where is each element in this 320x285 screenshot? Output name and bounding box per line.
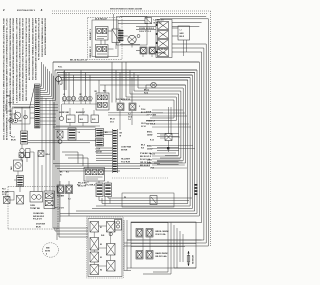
cabinet border dotted top inner bbox=[52, 13, 207, 15]
svg-text:CONV FAN: CONV FAN bbox=[121, 146, 132, 149]
oven selector block SW8 bbox=[84, 168, 105, 182]
board relay KA bbox=[90, 222, 99, 233]
broil element HE1 bbox=[136, 229, 153, 238]
oven box feed verticals bbox=[124, 220, 131, 271]
receptacle block R1 bbox=[96, 93, 109, 110]
svg-text:BR-4: BR-4 bbox=[46, 153, 50, 156]
interlock xbox bbox=[4, 197, 11, 204]
extra center text sprinkles bbox=[58, 59, 107, 93]
svg-text:HIGH VOLTAGE PRESENT AT TERMIN: HIGH VOLTAGE PRESENT AT TERMINALS. DISCH… bbox=[31, 17, 34, 80]
door switch label bottom-left bbox=[36, 224, 45, 229]
svg-text:BR-12: BR-12 bbox=[110, 119, 115, 121]
svg-text:CONTROLS. WIRING ERRORS CAN CA: CONTROLS. WIRING ERRORS CAN CAUSE IMPROP… bbox=[12, 18, 15, 105]
terminal block TB1 bbox=[145, 18, 152, 24]
junction blob bbox=[167, 147, 169, 149]
svg-text:SCHEMATIC SHOWN WITH POWER OFF: SCHEMATIC SHOWN WITH POWER OFF AND ALL C… bbox=[19, 18, 22, 101]
svg-text:SW BK-W-R: SW BK-W-R bbox=[33, 216, 45, 218]
svg-text:SU1: SU1 bbox=[68, 119, 71, 121]
relay interconnect wires bbox=[101, 31, 114, 49]
svg-text:FOR SERVICE INFORMATION CALL 1: FOR SERVICE INFORMATION CALL 1-800 SE bbox=[41, 17, 44, 57]
ladder component mid bbox=[68, 128, 80, 140]
bottom region box outline bbox=[122, 193, 174, 207]
control board dashed outline bbox=[87, 217, 124, 278]
fuse indicator circle bbox=[56, 74, 62, 85]
svg-text:BK-R: BK-R bbox=[180, 36, 185, 38]
oven sensor S1 bbox=[187, 251, 190, 266]
indicator lamps trio B bbox=[79, 96, 92, 100]
svg-text:HI-LIMIT: HI-LIMIT bbox=[121, 159, 131, 161]
svg-text:SU3: SU3 bbox=[92, 119, 95, 121]
wire bus left corner drops bbox=[62, 71, 66, 90]
svg-text:BK-W: BK-W bbox=[11, 139, 16, 141]
selector switch SW7 bbox=[44, 191, 55, 209]
svg-text:SW BK-8: SW BK-8 bbox=[146, 123, 155, 125]
svg-text:LOCK: LOCK bbox=[96, 149, 102, 151]
board feed wires left bbox=[53, 80, 88, 237]
right-mid label cluster 3 bbox=[141, 145, 195, 150]
element wires to bundle bbox=[157, 134, 179, 165]
wire mid horizontal 1b bbox=[28, 142, 90, 144]
svg-text:SURF IND: SURF IND bbox=[59, 112, 70, 114]
element relay K4 bbox=[66, 185, 73, 194]
wire mid corner group bbox=[62, 152, 88, 169]
svg-text:BK-W: BK-W bbox=[36, 226, 41, 228]
svg-text:ALL COMPONENTS SHOWN DE-ENERGI: ALL COMPONENTS SHOWN DE-ENERGIZED. RESIS… bbox=[28, 18, 31, 80]
oven thermostat TH1 bbox=[30, 192, 43, 203]
svg-text:BK-8: BK-8 bbox=[141, 145, 145, 147]
fan motor FM1 bbox=[14, 160, 23, 171]
terminal strip pins bbox=[156, 24, 158, 53]
svg-text:LF: LF bbox=[63, 94, 65, 96]
ladder component bbox=[17, 176, 24, 187]
svg-text:OR-12: OR-12 bbox=[141, 123, 146, 125]
second row wires bbox=[56, 104, 100, 126]
note bubble dashed bbox=[43, 243, 59, 257]
board relay KF bbox=[107, 244, 116, 256]
svg-text:RELAY 1: RELAY 1 bbox=[89, 29, 92, 40]
fuse ladder F1 bbox=[112, 14, 123, 49]
transformer info box bbox=[178, 26, 190, 40]
hot surface indicator pair bbox=[9, 118, 22, 122]
connector P2 left wires bbox=[96, 132, 113, 161]
latch row lower labels bbox=[110, 119, 115, 124]
latch switch LS1 bbox=[117, 103, 124, 111]
svg-text:8101P554-60 REV 0: 8101P554-60 REV 0 bbox=[17, 9, 36, 12]
svg-text:K2: K2 bbox=[100, 244, 102, 246]
right-mid vertical wire pair bbox=[169, 107, 172, 152]
svg-text:8101P554-60 WIRING INFORMATION: 8101P554-60 WIRING INFORMATION FOR bbox=[44, 18, 47, 55]
right-mid dense cluster 4 bbox=[140, 152, 187, 168]
lamp trio labels bbox=[63, 91, 98, 96]
splice dots on bundle bbox=[194, 184, 197, 195]
right-mid label cluster 2 bbox=[141, 123, 191, 128]
wires TB1 bbox=[118, 21, 156, 30]
svg-text:NOTE: 1. DISCONNECT POWER BEFO: NOTE: 1. DISCONNECT POWER BEFORE SERVICI… bbox=[3, 18, 6, 140]
svg-text:OVEN LT: OVEN LT bbox=[146, 121, 156, 123]
svg-text:2500W: 2500W bbox=[147, 148, 153, 150]
clean lamp wires bbox=[22, 144, 34, 162]
oven light wires bbox=[146, 85, 186, 90]
board relay KE bbox=[107, 222, 116, 236]
wire bundle terminal stubs bbox=[120, 16, 206, 26]
svg-text:W-14: W-14 bbox=[144, 91, 148, 94]
connector P1 corner fan from bus bbox=[40, 62, 56, 101]
connector P1 strip body bbox=[35, 84, 41, 128]
board corner cluster bbox=[115, 220, 122, 231]
bottom nested corner wires bbox=[99, 197, 192, 207]
surface switch wires bbox=[120, 45, 152, 58]
latch label texts bbox=[128, 114, 132, 122]
ground symbol bbox=[8, 98, 12, 105]
svg-text:BU-W GY-2: BU-W GY-2 bbox=[140, 156, 151, 158]
svg-text:DOOR SW: DOOR SW bbox=[36, 224, 45, 226]
supply vertical L1 bbox=[52, 62, 54, 222]
svg-text:GY-6: GY-6 bbox=[128, 116, 132, 118]
svg-text:BAKE 2500W: BAKE 2500W bbox=[156, 252, 168, 255]
svg-text:TCO R-W: TCO R-W bbox=[121, 161, 130, 163]
board relay KB bbox=[90, 238, 99, 251]
svg-text:R-6: R-6 bbox=[66, 172, 69, 174]
connector P2 strip body bbox=[113, 129, 118, 173]
supply vertical R bbox=[56, 73, 58, 241]
lock motor block bbox=[96, 129, 109, 154]
console labels bottom bbox=[33, 212, 45, 221]
wire bottom-right lower turns bbox=[143, 268, 196, 274]
center labels right of latches bbox=[139, 90, 156, 126]
svg-text:K6 BR: K6 BR bbox=[57, 196, 65, 198]
door plunger switch bbox=[150, 196, 157, 205]
second row components bbox=[60, 115, 99, 123]
svg-text:P4 P6 P8 P12: P4 P6 P8 P12 bbox=[116, 98, 130, 101]
svg-text:SU2: SU2 bbox=[80, 119, 83, 121]
mid small xbox component bbox=[38, 151, 49, 157]
svg-text:P2-8: P2-8 bbox=[2, 189, 6, 191]
svg-text:R-W 13.3A: R-W 13.3A bbox=[156, 233, 167, 236]
svg-text:Y-4: Y-4 bbox=[128, 118, 131, 121]
svg-text:DOUBLE LINES DENOTE CHASSIS GR: DOUBLE LINES DENOTE CHASSIS GROUND CIRCU… bbox=[22, 17, 25, 101]
svg-text:6. CHECK FOR PROPER GROUND CON: 6. CHECK FOR PROPER GROUND CONTINUITY BE… bbox=[16, 18, 18, 103]
switch pair boxes bbox=[19, 153, 30, 158]
surface switch SW1 bbox=[140, 47, 156, 54]
buzzer BZ1 box bbox=[12, 108, 30, 124]
board relay KG bbox=[107, 261, 116, 272]
connector ladder P1-2 bbox=[21, 131, 28, 144]
wire bus line single bbox=[53, 61, 199, 63]
board relay KD bbox=[90, 265, 99, 275]
terminal box outline bbox=[156, 20, 172, 58]
svg-text:P1-2: P1-2 bbox=[11, 137, 15, 139]
selector block labels bbox=[60, 172, 95, 187]
indicator wires bbox=[11, 107, 34, 131]
oven light OL1 bbox=[151, 82, 157, 88]
svg-text:W-8: W-8 bbox=[141, 148, 144, 150]
svg-text:AT ROOM TEMPERATURE. 3. SEE TE: AT ROOM TEMPERATURE. 3. SEE TECH SHEET F… bbox=[6, 18, 9, 140]
svg-text:TSTAT BK: TSTAT BK bbox=[30, 207, 41, 210]
right-mid label cluster 1 bbox=[141, 108, 187, 116]
bottom cluster feed verticals bbox=[60, 181, 108, 222]
svg-text:DLB RELAY: DLB RELAY bbox=[95, 18, 108, 21]
svg-text:P5-3 BK: P5-3 BK bbox=[78, 183, 88, 185]
buzzer wires bbox=[6, 104, 35, 118]
latch switch LS2 bbox=[129, 103, 136, 111]
latch row lower wires bbox=[108, 113, 163, 115]
cabinet border dotted right bbox=[210, 11, 212, 246]
connector P1 diagonal harness bbox=[30, 85, 35, 108]
svg-text:RF: RF bbox=[80, 94, 82, 96]
svg-text:R-14: R-14 bbox=[150, 139, 154, 142]
relay box inner outline bbox=[92, 20, 118, 57]
board labels bbox=[100, 227, 105, 272]
cabinet border dotted top outer bbox=[52, 10, 211, 12]
receptacle drops bbox=[99, 80, 105, 93]
oven box mid wires bbox=[131, 237, 196, 251]
svg-text:DOOR: DOOR bbox=[146, 112, 152, 114]
svg-text:SURFACE ELEMENTS AND OVEN ELEM: SURFACE ELEMENTS AND OVEN ELEMENTS RATED… bbox=[35, 17, 38, 80]
terminal strip TS1 xboxes bbox=[158, 22, 169, 57]
svg-text:V-2: V-2 bbox=[128, 114, 131, 116]
svg-text:V-2: V-2 bbox=[68, 199, 71, 201]
svg-text:OVEN: OVEN bbox=[30, 205, 36, 207]
svg-text:P9: P9 bbox=[124, 197, 126, 199]
latch switch wires bbox=[116, 94, 174, 130]
svg-text:R-16 V-16: R-16 V-16 bbox=[140, 159, 150, 161]
control board inner outline bbox=[88, 219, 122, 277]
wire pair above DS1 bbox=[53, 127, 96, 130]
pilot cluster bbox=[6, 192, 24, 205]
svg-text:BU-16: BU-16 bbox=[141, 112, 146, 114]
svg-text:MOTOR: MOTOR bbox=[96, 151, 103, 153]
svg-text:P3-4 GY: P3-4 GY bbox=[33, 218, 43, 221]
connector P2 labels bbox=[120, 133, 132, 164]
wire bottom horizontals into box bbox=[127, 223, 202, 241]
svg-text:Y-6: Y-6 bbox=[78, 132, 81, 134]
svg-text:ELEMENT: ELEMENT bbox=[76, 112, 86, 114]
svg-text:RELAY 2: RELAY 2 bbox=[89, 46, 92, 57]
svg-text:NOTE: NOTE bbox=[45, 251, 51, 253]
transformer feed wires bbox=[172, 28, 187, 56]
svg-text:CLEAN SEL: CLEAN SEL bbox=[33, 212, 44, 215]
element labels column bbox=[147, 132, 155, 170]
svg-text:WIRE COLOR CODE: BK-BLACK W-WH: WIRE COLOR CODE: BK-BLACK W-WHITE R-RED … bbox=[25, 18, 28, 101]
supply vertical N bbox=[54, 70, 56, 228]
relay K2 bbox=[96, 45, 109, 58]
svg-text:K1: K1 bbox=[100, 227, 102, 229]
svg-text:SENSOR: SENSOR bbox=[193, 254, 195, 264]
svg-text:K3: K3 bbox=[100, 257, 102, 259]
console dashed boundary bbox=[8, 187, 58, 230]
oven box outline bbox=[131, 222, 196, 268]
motor cluster box outline bbox=[117, 17, 148, 46]
console vertical wires bbox=[34, 152, 50, 192]
right-mid xbox component bbox=[160, 134, 180, 141]
wire mid horizontal group bbox=[53, 164, 160, 172]
lamp row bottom wires bbox=[62, 101, 100, 104]
element relay K3 bbox=[57, 185, 64, 194]
svg-text:BROIL 3400W: BROIL 3400W bbox=[156, 230, 169, 233]
svg-text:GY-8: GY-8 bbox=[110, 122, 114, 124]
svg-text:WIRING INFORMATION SCHEMATIC: WIRING INFORMATION SCHEMATIC DIAGRAM bbox=[110, 8, 142, 11]
svg-text:MOTOR: MOTOR bbox=[121, 149, 128, 151]
svg-text:120V P11-2: 120V P11-2 bbox=[139, 31, 151, 33]
left long verticals from strip area bbox=[42, 96, 54, 187]
motor M1 bbox=[128, 35, 140, 44]
svg-text:P1 THRU P14 DENOTE CONNECTOR P: P1 THRU P14 DENOTE CONNECTOR PLUGS. SEE bbox=[38, 17, 41, 60]
svg-text:BROIL: BROIL bbox=[147, 132, 152, 134]
indicator lamps trio A bbox=[62, 96, 75, 100]
center corner wires bbox=[112, 62, 138, 103]
indicator lamp drops bbox=[65, 70, 91, 96]
wire bundle main verticals bbox=[53, 19, 208, 246]
notes text block rotated columns bbox=[3, 17, 48, 140]
left text cluster bbox=[2, 189, 9, 197]
svg-text:BK-12: BK-12 bbox=[144, 90, 149, 92]
connector P1 lower horizontals bbox=[14, 105, 58, 125]
chassis dashed line mid bbox=[112, 177, 168, 179]
svg-text:L1 BK-10: L1 BK-10 bbox=[154, 20, 164, 22]
svg-text:4: 4 bbox=[46, 253, 47, 256]
svg-text:P7-1 GY: P7-1 GY bbox=[55, 208, 65, 210]
board relay KC bbox=[90, 252, 99, 262]
console switch wires bbox=[14, 155, 27, 192]
board internal wires bbox=[94, 226, 111, 266]
svg-text:3400W: 3400W bbox=[147, 133, 153, 136]
wire mid horizontal 1 bbox=[28, 140, 96, 142]
wire bus lines group bbox=[55, 70, 197, 80]
door switch DS1 bbox=[57, 131, 63, 144]
bake element HE2 bbox=[136, 251, 153, 260]
svg-text:BK-W 10.4A: BK-W 10.4A bbox=[156, 255, 168, 258]
relay ladder pair bbox=[96, 183, 112, 197]
wire bottom-right verticals bbox=[168, 223, 183, 275]
relay box dashed outline bbox=[88, 18, 123, 60]
clean lamp pair bbox=[20, 148, 30, 157]
svg-text:W-12 R: W-12 R bbox=[78, 185, 87, 187]
svg-text:GRD: GRD bbox=[6, 96, 11, 98]
svg-text:P10-1: P10-1 bbox=[58, 67, 62, 69]
motor M1 wires bbox=[120, 36, 132, 48]
relay K1 bbox=[96, 27, 109, 41]
